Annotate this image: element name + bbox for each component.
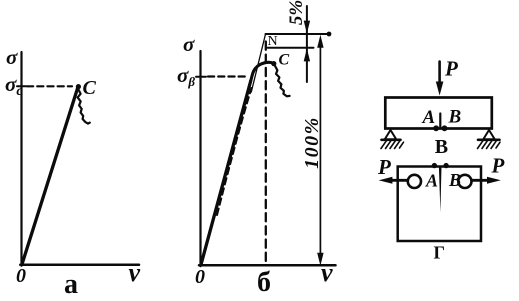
svg-text:A: A	[422, 107, 436, 128]
svg-text:0: 0	[16, 265, 26, 287]
beam left support hatching	[381, 141, 404, 149]
panel b 5% dimension upper arrow (pointing down to top line)	[304, 6, 310, 82]
svg-text:σβ: σβ	[177, 63, 195, 89]
plate crack-mouth dot A	[432, 163, 437, 168]
svg-text:Г: Г	[434, 243, 445, 263]
beam left support ground line	[382, 139, 401, 142]
plate right hole circle	[458, 175, 471, 188]
svg-text:v: v	[321, 258, 333, 287]
panel b sigma_v axis tick	[196, 76, 206, 78]
panel b dashed actual-curve segment	[217, 88, 252, 215]
panel b dashed sigma_v level line	[208, 75, 248, 77]
svg-text:P: P	[377, 155, 391, 179]
panel b fracture wavy line	[275, 66, 290, 96]
panel a y-axis (sigma axis)	[20, 52, 22, 266]
svg-text:0: 0	[195, 266, 205, 288]
svg-text:P: P	[491, 154, 505, 178]
panel b x-axis (strain axis)	[199, 264, 336, 267]
beam left support triangle	[385, 130, 396, 139]
svg-text:v: v	[129, 258, 141, 287]
beam crack line	[439, 114, 441, 129]
panel a sigma_c axis tick	[17, 85, 26, 87]
svg-text:5%: 5%	[286, 0, 307, 25]
panel b curve top bend to C	[251, 62, 274, 81]
plate left force P arrow	[379, 177, 408, 184]
svg-text:B: B	[448, 107, 462, 128]
panel a fracture point C dot	[76, 84, 81, 89]
beam right support ground line	[478, 139, 500, 142]
svg-text:100%: 100%	[301, 116, 323, 169]
svg-text:а: а	[64, 269, 78, 300]
svg-text:A: A	[425, 171, 438, 191]
panel b thin tangent line to N	[251, 35, 265, 93]
beam right support triangle	[483, 130, 494, 139]
panel b dashed vertical line from N to axis	[265, 42, 267, 265]
svg-text:σ: σ	[183, 32, 195, 56]
plate diagram rectangle	[398, 167, 481, 242]
panel b second horizontal line (5% lower bound)	[268, 47, 314, 49]
panel b thick stress-strain line	[201, 81, 251, 265]
plate right force P arrow	[472, 177, 501, 184]
svg-text:В: В	[435, 136, 448, 158]
panel b top horizontal line at N level	[266, 33, 330, 35]
panel b 5% dimension lower arrow (pointing up to second line)	[304, 48, 310, 61]
beam crack-tip dot B	[442, 125, 448, 131]
svg-text:б: б	[257, 267, 271, 298]
plate left hole circle	[408, 175, 421, 188]
svg-text:C: C	[83, 77, 97, 99]
plate crack wedge	[439, 167, 442, 213]
panel a fracture wavy line	[78, 89, 90, 123]
beam load P arrow	[436, 62, 444, 96]
panel a dashed level line to point C	[27, 85, 72, 87]
panel b 100% dimension line with arrows	[317, 35, 323, 266]
beam right support hatching	[478, 141, 501, 149]
svg-text:σ: σ	[6, 45, 18, 69]
panel a x-axis (strain axis)	[20, 263, 139, 266]
panel b y-axis (sigma axis)	[199, 51, 201, 266]
svg-text:C: C	[279, 52, 290, 69]
plate crack-mouth dot B	[443, 163, 448, 168]
beam crack-tip dot A	[433, 125, 439, 131]
beam diagram rectangle	[385, 98, 492, 129]
panel a stress-strain straight line 0-C	[22, 88, 78, 265]
panel b dot at right end of top line	[327, 32, 332, 37]
panel b fracture point C dot	[271, 61, 276, 66]
svg-text:P: P	[444, 57, 458, 81]
svg-text:B: B	[448, 170, 461, 190]
